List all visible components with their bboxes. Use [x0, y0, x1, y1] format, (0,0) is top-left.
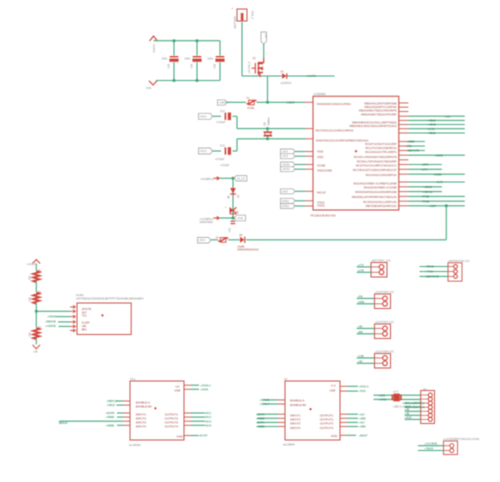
svg-text:+4GB: +4GB [405, 416, 412, 420]
svg-text:BPL: BPL [82, 328, 88, 332]
svg-text:INPUT4: INPUT4 [290, 426, 301, 430]
svg-text:U-2: U-2 [331, 384, 336, 388]
svg-text:+LTJ: +LTJ [393, 391, 399, 394]
svg-text:OSC2: OSC2 [200, 149, 208, 153]
svg-text:GND: GND [331, 434, 337, 438]
svg-text:+1B7L: +1B7L [421, 163, 429, 167]
svg-text:C16: C16 [213, 63, 216, 68]
svg-text:Q2: Q2 [263, 122, 267, 126]
svg-text:+VUSBPLG: +VUSBPLG [200, 177, 214, 181]
svg-text:+3u7L: +3u7L [436, 180, 444, 184]
svg-text:VUSB: VUSB [317, 164, 325, 168]
svg-text:C13: C13 [220, 145, 225, 148]
svg-text:+5V0: +5V0 [282, 189, 289, 193]
svg-text:MO2: MO2 [205, 415, 211, 419]
svg-text:BBRuP: BBRuP [59, 421, 68, 425]
svg-text:+LTS: +LTS [358, 263, 364, 267]
svg-text:RE3/MCLR/VPP/RP19/CTED12A: RE3/MCLR/VPP/RP19/CTED12A [352, 195, 397, 199]
svg-text:+4RB: +4RB [358, 300, 365, 304]
svg-text:+3V3: +3V3 [282, 154, 289, 158]
svg-text:+BBPPLPB: +BBPPLPB [425, 274, 439, 278]
svg-text:RA3/AN3/VREF+/C1INB: RA3/AN3/VREF+/C1INB [364, 186, 397, 190]
svg-text:+4BLB: +4BLB [427, 119, 435, 123]
svg-text:+5V: +5V [264, 34, 267, 39]
svg-text:+7B1/B: +7B1/B [424, 447, 433, 451]
svg-text:+HL28R83: +HL28R83 [282, 442, 295, 446]
svg-text:+4BLB: +4BLB [107, 403, 115, 407]
svg-text:OUTPUT4: OUTPUT4 [320, 426, 334, 430]
svg-text:+2GSTOR3-1X2: +2GSTOR3-1X2 [375, 290, 395, 294]
svg-text:F7GB: F7GB [422, 195, 429, 199]
svg-text:+4B: +4B [405, 412, 410, 416]
svg-text:H3V7REDaCCESNEN2L8ETPTPT7EA4H4: H3V7REDaCCESNEN2L8ETPTPT7EA4H4EL4ED3a4B2… [76, 297, 144, 301]
svg-text:+: + [232, 6, 234, 10]
svg-text:+4B7LB: +4B7LB [423, 190, 433, 194]
svg-text:RA1/AN1/C2INA/RP1A: RA1/AN1/C2INA/RP1A [366, 173, 397, 177]
svg-text:+BB: +BB [358, 330, 363, 334]
svg-text:GND: GND [177, 434, 183, 438]
svg-text:+4B: +4B [358, 325, 363, 329]
svg-text:VDDCORE: VDDCORE [317, 169, 332, 173]
svg-text:+1BB0: +1BB0 [406, 140, 415, 144]
svg-text:FUSE: FUSE [248, 107, 255, 110]
svg-text:RB7/KBI3/PGD/RP10A: RB7/KBI3/PGD/RP10A [366, 204, 397, 208]
svg-text:+4BB: +4BB [359, 425, 366, 429]
svg-text:+VLIPO: +VLIPO [306, 74, 317, 78]
svg-text:C12: C12 [220, 110, 225, 113]
svg-text:USB: USB [174, 388, 180, 392]
svg-text:100n: 100n [162, 56, 168, 60]
svg-text:+3V3: +3V3 [282, 150, 289, 154]
svg-text:+IC2ERED: +IC2ERED [313, 92, 326, 96]
svg-text:INPUT4: INPUT4 [136, 425, 147, 429]
svg-text:+4BBB: +4BBB [256, 425, 265, 429]
svg-text:+LACEERBBTCRN2LB-1X2AB: +LACEERBBTCRN2LB-1X2AB [443, 437, 479, 441]
svg-text:+1/2: +1/2 [445, 114, 451, 118]
svg-text:+4BNB: +4BNB [427, 123, 436, 127]
svg-text:RC7/RX1/DT1/SDO1/RP18/CCP: RC7/RX1/DT1/SDO1/RP18/CCP [353, 168, 397, 172]
svg-text:VDD: VDD [317, 155, 324, 159]
svg-text:L/BL-: L/BL- [406, 144, 413, 148]
svg-text:RC2/AN11/CTPLS/RP1: RC2/AN11/CTPLS/RP1 [365, 150, 397, 154]
svg-text:+BYMT: +BYMT [199, 434, 208, 438]
svg-text:VDD: VDD [317, 149, 324, 153]
svg-text:+C22pF: +C22pF [215, 157, 225, 161]
svg-text:+1/7L: +1/7L [421, 168, 428, 172]
svg-text:+2GSTOR8-1X2: +2GSTOR8-1X2 [375, 349, 395, 353]
svg-text:TCL: TCL [82, 314, 88, 318]
svg-text:100n: 100n [185, 56, 191, 60]
svg-text:+BATTERY: +BATTERY [233, 15, 237, 29]
svg-text:+PAD-G: +PAD-G [359, 384, 369, 388]
svg-text:RA5/AN4/SS1/HLVDIN/RP2AB: RA5/AN4/SS1/HLVDIN/RP2AB [355, 190, 396, 194]
svg-text:+4B4B: +4B4B [435, 153, 443, 157]
svg-text:3R3: 3R3 [28, 275, 31, 280]
svg-text:+RPM-4: +RPM-4 [260, 402, 270, 406]
svg-text:+4BLB: +4BLB [427, 131, 435, 135]
svg-text:F4GB: F4GB [422, 199, 429, 203]
svg-text:+PWR: +PWR [200, 387, 208, 391]
svg-text:+RPWB: +RPWB [260, 398, 270, 402]
svg-text:+BBPLB: +BBPLB [107, 399, 117, 403]
svg-text:1N5819HW2SOD23: 1N5819HW2SOD23 [237, 249, 259, 252]
svg-text:+PWR-C: +PWR-C [200, 383, 211, 387]
svg-text:+LTB: +LTB [358, 269, 364, 273]
svg-text:+5V0: +5V0 [199, 238, 206, 242]
svg-text:BB: BB [228, 195, 230, 199]
svg-text:100n: 100n [208, 56, 214, 60]
svg-text:JS_G3: JS_G3 [237, 176, 245, 180]
svg-text:+BbMT: +BbMT [359, 433, 368, 437]
svg-text:GND2: GND2 [282, 199, 290, 203]
svg-text:+BAPB: +BAPB [106, 411, 115, 415]
svg-text:+LER: +LER [429, 204, 436, 208]
svg-text:+BB7L-E2B7PL2L: +BB7L-E2B7PL2L [404, 405, 426, 409]
svg-text:RB5/KBI1/SDI1/SDA1/RP8/T3CKI2: RB5/KBI1/SDI1/SDA1/RP8/T3CKI2 [349, 124, 396, 128]
svg-text:+4b7: +4b7 [359, 412, 366, 416]
svg-text:12MHz: 12MHz [266, 117, 270, 126]
svg-text:RB3/AN9/CTED2/VPO/RP: RB3/AN9/CTED2/VPO/RP [361, 112, 396, 116]
svg-text:+3V3A: +3V3A [282, 163, 290, 167]
svg-text:+5RW0: +5RW0 [47, 314, 56, 318]
svg-text:+VLIPO: +VLIPO [152, 44, 156, 53]
svg-text:RA7/OSC1/CLKI/RCV/RP16: RA7/OSC1/CLKI/RCV/RP16 [316, 129, 354, 133]
svg-text:+BB/7LPB: +BB/7LPB [406, 149, 419, 153]
svg-text:+BAPA: +BAPA [256, 421, 265, 425]
svg-text:+4BBB: +4BBB [106, 415, 115, 419]
svg-text:+1B: +1B [33, 350, 38, 353]
svg-text:VSS: VSS [146, 86, 151, 90]
svg-text:MO3: MO3 [205, 419, 211, 423]
svg-text:MCLR: MCLR [317, 191, 326, 195]
svg-text:+4b7: +4b7 [359, 421, 366, 425]
svg-text:+2GSTOR7-1X2: +2GSTOR7-1X2 [375, 320, 395, 324]
svg-text:C40: C40 [229, 227, 232, 232]
svg-text:+-PUD: +-PUD [425, 269, 433, 273]
svg-text:MO4: MO4 [205, 423, 211, 427]
svg-text:RC6/TX1/CK1/RP17/AN11/CC: RC6/TX1/CK1/RP17/AN11/CC [356, 164, 397, 168]
svg-text:+1/7B: +1/7B [427, 127, 434, 131]
svg-text:+VLIPO_E: +VLIPO_E [248, 61, 251, 73]
svg-text:ENABLE-B0: ENABLE-B0 [290, 403, 306, 407]
svg-text:+1RE2: +1RE2 [379, 398, 388, 402]
svg-text:+3CR3V3: +3CR3V3 [280, 81, 292, 85]
svg-text:RA6/OSC2/CLKO/RP15/REFO/SDO2A: RA6/OSC2/CLKO/RP15/REFO/SDO2A [316, 138, 368, 142]
svg-text:+1RE: +1RE [379, 393, 386, 397]
svg-text:U0B: U0B [330, 388, 336, 392]
svg-text:+4B: +4B [358, 360, 363, 364]
svg-text:+BATTERY_1X2: +BATTERY_1X2 [371, 258, 391, 262]
svg-text:2E4EH4SE2: 2E4EH4SE2 [200, 221, 214, 224]
svg-text:+C22pF: +C22pF [220, 163, 230, 167]
svg-text:MO1: MO1 [205, 411, 211, 415]
svg-text:GND2: GND2 [282, 204, 290, 208]
svg-text:+REND: +REND [425, 264, 434, 268]
svg-text:+PB: +PB [358, 295, 363, 299]
svg-text:+PAD: +PAD [359, 389, 366, 393]
svg-text:+1/CCBAB: +1/CCBAB [424, 442, 437, 446]
svg-text:HL-80000: HL-80000 [129, 443, 141, 447]
svg-text:+4BAB: +4BAB [423, 185, 432, 189]
svg-text:+GB7L-2-EB7PLL2: +GB7L-2-EB7PLL2 [402, 401, 425, 405]
svg-text:OSC1: OSC1 [200, 114, 208, 118]
svg-text:C16: C16 [167, 63, 170, 68]
svg-text:+31BB: +31BB [433, 172, 441, 176]
svg-text:C16: C16 [190, 63, 193, 68]
svg-text:PAD_2: PAD_2 [251, 11, 255, 20]
svg-text:+14B: +14B [358, 354, 364, 358]
svg-text:+C22pF: +C22pF [216, 120, 226, 124]
svg-text:2R2: 2R2 [28, 296, 31, 301]
svg-text:PIC18LF26J50-I/SO: PIC18LF26J50-I/SO [311, 213, 337, 217]
svg-text:ENABLE-B0: ENABLE-B0 [136, 405, 152, 409]
svg-text:+4BBB: +4BBB [106, 423, 115, 427]
svg-text:+BBRSB: +BBRSB [45, 320, 56, 324]
svg-text:+4BBB: +4BBB [256, 416, 265, 420]
svg-text:+BAPA: +BAPA [256, 412, 265, 416]
svg-text:+5uE: +5uE [237, 216, 243, 220]
svg-text:OUTPUT4: OUTPUT4 [165, 425, 179, 429]
svg-text:VSS2: VSS2 [317, 204, 325, 208]
svg-text:+3V3A: +3V3A [282, 167, 290, 171]
svg-text:+VBAT: +VBAT [286, 101, 295, 105]
svg-text:+VSRPB: +VSRPB [45, 324, 56, 328]
svg-text:+4BB: +4BB [359, 416, 366, 420]
svg-text:1R0: 1R0 [28, 332, 31, 337]
svg-text:RA0/AN0/C1INA/ULPWU: RA0/AN0/C1INA/ULPWU [317, 102, 351, 106]
svg-text:+1GxL2: +1GxL2 [27, 263, 36, 266]
